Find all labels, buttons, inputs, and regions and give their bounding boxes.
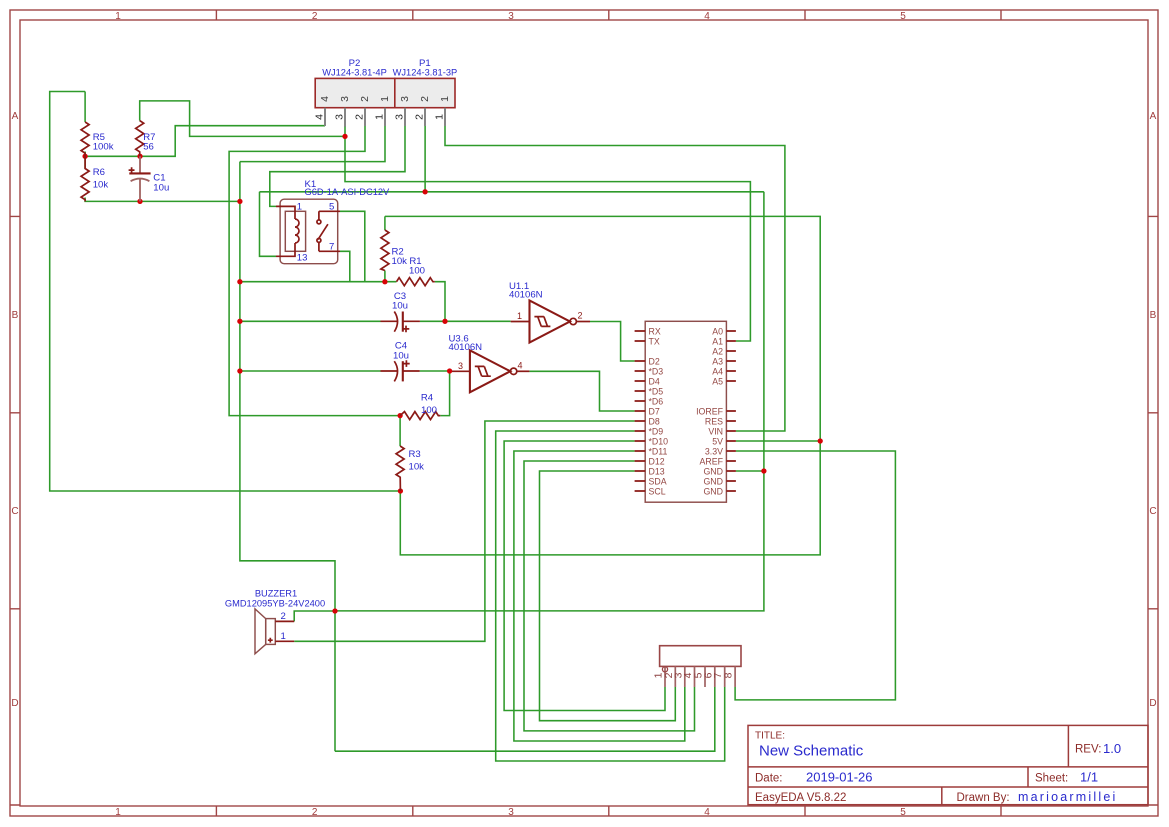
- wire R2 top to 5V vertical: [385, 216, 820, 555]
- connector P2: [315, 58, 395, 108]
- svg-text:*D3: *D3: [649, 367, 664, 377]
- IC U2 microcontroller body: [645, 321, 726, 502]
- svg-text:1: 1: [374, 114, 386, 120]
- svg-text:A4: A4: [712, 367, 723, 377]
- svg-text:4: 4: [517, 361, 522, 371]
- wire R3 leads: [399, 416, 401, 446]
- svg-text:C: C: [1149, 506, 1156, 517]
- resistor R7: [136, 121, 156, 157]
- svg-text:40106N: 40106N: [449, 342, 483, 353]
- wire 3.3V to connector pin8: [735, 451, 895, 700]
- wire P2 pin2 loop to R4 row: [229, 126, 400, 416]
- junction U3.6 input node: [447, 368, 452, 373]
- svg-text:BUZZER1: BUZZER1: [255, 589, 297, 599]
- svg-text:*D9: *D9: [649, 427, 664, 437]
- svg-text:1: 1: [297, 202, 302, 213]
- svg-text:REV:: REV:: [1075, 744, 1101, 756]
- wire R7 top loop to P2 pin3: [140, 101, 345, 136]
- svg-text:R4: R4: [421, 393, 434, 404]
- P2 pin numbers inside: [319, 96, 451, 102]
- wire D11 to connector pin3: [514, 451, 685, 741]
- svg-text:1/1: 1/1: [1080, 770, 1098, 785]
- svg-text:D: D: [1149, 698, 1156, 709]
- svg-text:1: 1: [281, 631, 286, 642]
- svg-text:Sheet:: Sheet:: [1035, 773, 1068, 785]
- junction GND pin node: [761, 468, 766, 473]
- svg-text:2: 2: [354, 114, 366, 120]
- wire net relay coil row y=191.8: [260, 192, 764, 256]
- svg-text:C: C: [11, 506, 18, 517]
- wire 5V pin row: [736, 440, 820, 442]
- svg-text:WJ124-3.81-4P: WJ124-3.81-4P: [322, 67, 387, 77]
- resistor R5: [81, 122, 114, 156]
- wire D13 to connector pin2: [540, 471, 676, 721]
- junction U1.1 input node: [442, 319, 447, 324]
- svg-text:D2: D2: [649, 357, 660, 367]
- svg-text:1.0: 1.0: [1103, 741, 1121, 756]
- capacitor C4: [381, 341, 420, 382]
- wire P2 pin1 to vertical: [240, 126, 385, 162]
- svg-text:3: 3: [399, 96, 411, 102]
- svg-text:10k: 10k: [392, 256, 408, 267]
- svg-text:TITLE:: TITLE:: [755, 731, 785, 742]
- svg-text:New Schematic: New Schematic: [759, 743, 864, 760]
- frame row letters left: [11, 111, 18, 709]
- svg-text:A2: A2: [712, 347, 723, 357]
- svg-text:D13: D13: [649, 467, 665, 477]
- resistor R3: [396, 446, 424, 491]
- svg-text:2019-01-26: 2019-01-26: [806, 770, 873, 785]
- svg-text:SDA: SDA: [649, 477, 667, 487]
- svg-text:5: 5: [900, 807, 906, 818]
- connector J1 bottom: [653, 646, 742, 687]
- svg-text:1: 1: [517, 311, 522, 321]
- svg-text:1: 1: [379, 96, 391, 102]
- junction C1 row end node: [237, 199, 242, 204]
- junction P1 pin2 node: [422, 189, 427, 194]
- svg-text:SCL: SCL: [649, 487, 666, 497]
- wire buzzer pin2 net to connector pin6: [335, 687, 715, 751]
- svg-text:GND: GND: [703, 477, 723, 487]
- svg-text:3: 3: [508, 11, 514, 22]
- wire P1 pin3 to relay pin1: [270, 126, 405, 206]
- svg-text:*D5: *D5: [649, 387, 664, 397]
- frame column numbers bottom: [115, 807, 906, 818]
- svg-text:100: 100: [409, 266, 425, 277]
- wire P1 pin1 to VIN: [445, 126, 785, 431]
- svg-text:2: 2: [419, 96, 431, 102]
- svg-text:RES: RES: [705, 417, 723, 427]
- junction R2 bottom node: [382, 279, 387, 284]
- IC right pin names: [696, 327, 724, 497]
- wire relay pin7 down: [340, 251, 350, 281]
- svg-text:*D11: *D11: [649, 447, 668, 457]
- svg-text:marioarmillei: marioarmillei: [1018, 790, 1117, 804]
- svg-text:A: A: [1150, 111, 1157, 122]
- svg-text:8: 8: [723, 672, 735, 678]
- svg-text:100k: 100k: [93, 142, 114, 153]
- junction buzzer pin2 node: [332, 608, 337, 613]
- svg-text:7: 7: [329, 242, 334, 253]
- svg-text:A: A: [12, 111, 19, 122]
- svg-text:B: B: [1150, 310, 1157, 321]
- resistor R6: [81, 156, 108, 201]
- svg-text:GND: GND: [703, 487, 723, 497]
- relay K1: [276, 179, 390, 264]
- svg-text:EasyEDA V5.8.22: EasyEDA V5.8.22: [755, 792, 846, 804]
- P1 pin stubs (gray): [405, 108, 445, 126]
- wire U3.6 output to D7: [529, 371, 634, 411]
- svg-text:10u: 10u: [153, 183, 169, 194]
- resistor R4: [400, 393, 440, 420]
- wire U1.1 output to D2: [590, 322, 635, 362]
- svg-text:3: 3: [334, 114, 346, 120]
- wire net V+ top-left loop: [50, 92, 401, 492]
- svg-text:A0: A0: [712, 327, 723, 337]
- junction C4 row left node: [237, 368, 242, 373]
- frame ruler ticks left: [10, 216, 20, 805]
- svg-text:*D6: *D6: [649, 397, 664, 407]
- svg-text:4: 4: [704, 11, 710, 22]
- svg-text:RX: RX: [649, 327, 661, 337]
- junction C1 bottom node: [137, 199, 142, 204]
- svg-text:D8: D8: [649, 417, 660, 427]
- svg-text:2: 2: [281, 611, 286, 622]
- svg-text:13: 13: [297, 253, 308, 264]
- svg-text:*D10: *D10: [649, 437, 669, 447]
- svg-text:2: 2: [577, 311, 582, 321]
- wire P1 pin2 vertical: [424, 126, 426, 192]
- svg-text:4: 4: [314, 114, 326, 120]
- svg-text:40106N: 40106N: [509, 290, 543, 301]
- junction R5/R6 node: [82, 154, 87, 159]
- junction P2 pin3 node: [342, 134, 347, 139]
- wire R6 bottom row to vertical x=240: [85, 198, 240, 202]
- svg-text:10k: 10k: [409, 462, 425, 473]
- resistor R2: [381, 230, 407, 271]
- svg-text:2: 2: [359, 96, 371, 102]
- junction R3 bottom node: [398, 488, 403, 493]
- svg-text:56: 56: [143, 142, 154, 153]
- resistor R1: [397, 256, 435, 286]
- junction R1 row left node: [237, 279, 242, 284]
- wire GND pin row: [736, 470, 764, 472]
- IC left pin stubs: [635, 331, 646, 491]
- wire D9 to connector pin7: [496, 431, 725, 761]
- wire GND vertical to buzzer row: [335, 192, 764, 611]
- svg-text:5: 5: [900, 11, 906, 22]
- wire D8 to buzzer pin1: [294, 421, 634, 641]
- svg-text:TX: TX: [649, 337, 660, 347]
- wire buzzer pin2 step: [294, 611, 335, 621]
- svg-text:5V: 5V: [712, 437, 723, 447]
- wire D10 to connector pin1: [504, 441, 665, 711]
- wire P2 pin3 down to A1: [345, 126, 750, 341]
- junction R4/R3 top node: [397, 413, 402, 418]
- svg-text:3: 3: [458, 361, 463, 371]
- junction C3 row left node: [237, 319, 242, 324]
- frame row letters right: [1149, 111, 1156, 709]
- wire R2 leads: [384, 216, 386, 281]
- frame ruler ticks right: [1148, 216, 1158, 805]
- frame column numbers top: [115, 11, 906, 22]
- svg-text:D12: D12: [649, 457, 665, 467]
- svg-text:Date:: Date:: [755, 773, 783, 785]
- svg-text:10u: 10u: [392, 301, 408, 312]
- svg-text:R6: R6: [93, 167, 105, 178]
- svg-text:A3: A3: [712, 357, 723, 367]
- wire R1 right to C3 node: [435, 282, 445, 322]
- svg-text:1: 1: [434, 114, 446, 120]
- capacitor C3: [381, 291, 420, 332]
- title block: [748, 725, 1148, 804]
- svg-text:10k: 10k: [93, 180, 109, 191]
- svg-text:3: 3: [339, 96, 351, 102]
- svg-text:B: B: [12, 310, 19, 321]
- IC right pin stubs: [726, 331, 736, 491]
- svg-text:AREF: AREF: [700, 457, 724, 467]
- op-amp U3.6 inverter: [449, 334, 530, 393]
- svg-text:1: 1: [439, 96, 451, 102]
- svg-text:R3: R3: [409, 449, 421, 460]
- P2 pin stubs (gray): [325, 108, 385, 127]
- junction R7/C1 top node: [137, 154, 142, 159]
- IC left pin names: [649, 327, 669, 497]
- junction 5V pin node: [818, 438, 823, 443]
- wire R4 right to C4 node: [440, 371, 449, 416]
- wire long vertical x=239.9: [240, 162, 335, 752]
- svg-text:2: 2: [312, 11, 318, 22]
- P2/P1 pin numbers outside: [314, 114, 446, 120]
- svg-text:100: 100: [421, 405, 437, 416]
- svg-text:1: 1: [115, 11, 121, 22]
- svg-text:GND: GND: [703, 467, 723, 477]
- svg-text:IOREF: IOREF: [696, 407, 724, 417]
- svg-text:3.3V: 3.3V: [705, 447, 723, 457]
- svg-text:D7: D7: [649, 407, 660, 417]
- svg-text:2: 2: [312, 807, 318, 818]
- svg-text:VIN: VIN: [708, 427, 723, 437]
- buzzer BUZZER1: [225, 589, 325, 654]
- wire relay pin5 to R1 row: [340, 211, 365, 281]
- svg-text:4: 4: [319, 96, 331, 102]
- svg-text:A5: A5: [712, 377, 723, 387]
- connector P1: [393, 58, 458, 108]
- svg-text:G6D-1A-ASI-DC12V: G6D-1A-ASI-DC12V: [305, 187, 391, 197]
- svg-text:WJ124-3.81-3P: WJ124-3.81-3P: [393, 67, 458, 77]
- frame ruler ticks bottom: [216, 806, 1001, 816]
- svg-text:D: D: [11, 698, 18, 709]
- svg-text:A1: A1: [712, 337, 723, 347]
- wire C3 row: [240, 320, 511, 322]
- op-amp U1.1 inverter: [509, 281, 590, 343]
- svg-text:2: 2: [414, 114, 426, 120]
- svg-text:1: 1: [115, 807, 121, 818]
- capacitor C1: [129, 156, 170, 201]
- svg-text:3: 3: [508, 807, 514, 818]
- wire R5 top to loop: [84, 92, 86, 123]
- wire C4 row: [240, 370, 450, 372]
- svg-text:GMD12095YB-24V2400: GMD12095YB-24V2400: [225, 599, 325, 609]
- wire node R5/R6/R7/C1 row: [85, 126, 325, 169]
- frame ruler ticks top: [216, 10, 1001, 20]
- svg-text:Drawn By:: Drawn By:: [957, 792, 1010, 804]
- wire D12 to connector pin4: [524, 461, 695, 731]
- wire R1 row y=281.7: [240, 281, 397, 283]
- svg-text:3: 3: [394, 114, 406, 120]
- svg-text:5: 5: [329, 202, 334, 213]
- svg-text:4: 4: [704, 807, 710, 818]
- svg-text:D4: D4: [649, 377, 660, 387]
- svg-text:10u: 10u: [393, 351, 409, 362]
